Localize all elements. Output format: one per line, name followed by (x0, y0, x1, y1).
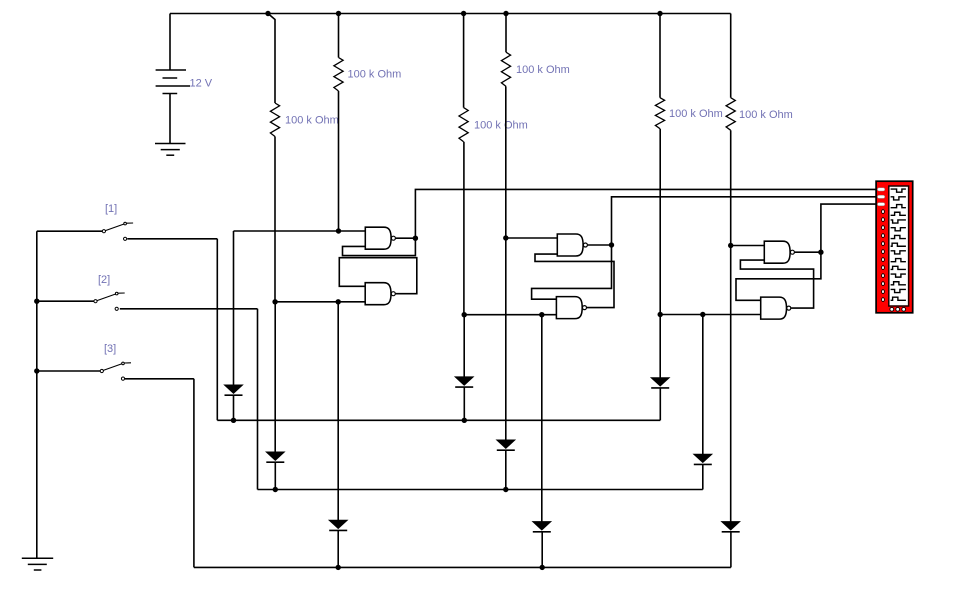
svg-text:100 k Ohm: 100 k Ohm (474, 119, 528, 131)
wire: switch 2 to bus corner (120, 308, 258, 310)
wire: battery negative lead (169, 94, 171, 144)
node: R4 on NAND C input (503, 235, 508, 240)
wire: NAND E output (795, 251, 821, 253)
wire: switch-1 horizontal bus (217, 419, 660, 421)
diode D6 (533, 522, 551, 530)
wire: left ground bus (36, 231, 38, 558)
wire: R1 bottom to NAND B input node (274, 137, 276, 302)
wire: R3 bottom to NAND D input node (463, 142, 465, 315)
wire: R6 bottom to NAND E top input node (730, 130, 732, 245)
wire: E output up to display (821, 204, 876, 252)
wire: NAND A output (396, 237, 416, 239)
wire: bus to switch 2 (37, 300, 94, 302)
wire: bus to switch 1 (37, 230, 103, 232)
node: rail junction to R3 (461, 11, 466, 16)
node: D6 cathode on switch-3 bus (540, 565, 545, 570)
diode D4 (455, 377, 473, 385)
NAND gate U1A (365, 227, 391, 249)
node: D4 cathode on switch-1 bus (462, 418, 467, 423)
node: rail junction to R5 (657, 11, 662, 16)
switch S3 (100, 369, 103, 372)
NAND gate U2D (556, 297, 582, 319)
wire: node B-low down to diode D2 (274, 302, 276, 452)
resistor R3 100 kOhm (459, 108, 468, 142)
wire: A-input column down to diode D1 (233, 231, 235, 385)
node: D8 column on NAND F input (700, 312, 705, 317)
wire: switch-2 bus vertical (257, 309, 259, 490)
node: NAND A output junction (413, 236, 418, 241)
wire: D3 cathode to switch-3 bus (337, 530, 339, 567)
NAND gate U2C (557, 234, 583, 256)
node: D6 column on NAND D input (539, 312, 544, 317)
diode D7 (651, 378, 669, 386)
wire: D4 cathode to switch-1 bus (463, 387, 465, 420)
wire: NAND E top input (731, 245, 765, 247)
node: NAND C output junction (609, 242, 614, 247)
wire: NAND C output (588, 244, 612, 246)
wire: switch 3 to bus corner (125, 378, 194, 380)
wire: A output feedback to A lower input (343, 238, 416, 255)
wire: node D-low down to diode D6 (541, 315, 543, 522)
ground (switch bus) (22, 557, 53, 559)
wire: rail to R4 (505, 14, 507, 53)
svg-text:12 V: 12 V (190, 78, 213, 90)
wire: NAND C top input (506, 237, 558, 239)
node: R1 on NAND B input (272, 299, 277, 304)
wire: D1 cathode to switch-1 bus (233, 395, 235, 420)
wire: R5 bottom to NAND F input node (659, 129, 661, 315)
svg-text:[3]: [3] (104, 343, 116, 355)
wire: node F-low down to diode D8 (702, 315, 704, 455)
wire: bus to switch 3 (37, 370, 101, 372)
node: R6 on NAND E input (728, 243, 733, 248)
wire: switch 1 to set-bus corner (127, 238, 217, 240)
svg-text:100 k Ohm: 100 k Ohm (516, 64, 570, 76)
diode D1 (225, 385, 243, 393)
wire: NAND A top input (234, 230, 366, 232)
wire: switch-3 bus vertical (193, 379, 195, 568)
wire: D9 cathode to switch-3 bus corner (730, 532, 732, 568)
node: R2 on NAND A input (336, 228, 341, 233)
wire: A output up to display (415, 189, 876, 238)
wire: B output feedback to B upper input (339, 258, 417, 294)
node: D3 column on NAND B input (336, 299, 341, 304)
wire: D6 cathode to switch-3 bus (541, 532, 543, 568)
svg-text:100 k Ohm: 100 k Ohm (348, 68, 402, 80)
node: D3 cathode on switch-3 bus (336, 565, 341, 570)
wire: NAND F lower input (660, 314, 761, 316)
node: rail junction to R4 (503, 11, 508, 16)
wire: switch-1 bus vertical (216, 239, 218, 420)
resistor R5 100 kOhm (655, 98, 664, 129)
node: NAND E output junction (818, 250, 823, 255)
switch S1 (102, 230, 105, 233)
wire: F output cross-couple to E lower input (740, 260, 813, 308)
diode D3 (329, 520, 347, 528)
wire: switch-3 horizontal bus (194, 566, 731, 568)
wire: rail jog down to R1 (268, 14, 275, 104)
wire: E output cross-couple to F upper input (736, 252, 821, 300)
NAND gate U3E (764, 241, 790, 263)
wire: node B-low down to diode D3 (337, 302, 339, 520)
wire: D7 cathode to switch-1 bus corner (659, 388, 661, 420)
wire: D5 cathode to switch-2 bus (505, 450, 507, 489)
ground (battery) (155, 143, 186, 145)
wire: NAND B lower input (275, 301, 365, 303)
wire: rail to R5 (659, 14, 661, 98)
NAND gate U3F (761, 297, 787, 319)
wire: rail to R2 (338, 14, 340, 58)
wire: +12V top power rail (170, 13, 731, 15)
wire: rail to R3 (463, 14, 465, 108)
diode D9 (722, 522, 740, 530)
diode D2 (266, 452, 284, 460)
svg-text:100 k Ohm: 100 k Ohm (669, 108, 723, 120)
diode D5 (497, 440, 515, 448)
node: rail junction to R2 (336, 11, 341, 16)
node: D2 cathode on switch-2 bus (273, 487, 278, 492)
resistor R6 100 kOhm (726, 98, 735, 131)
wire: node F-low down to diode D7 (659, 315, 661, 378)
wire: node D-low down to diode D4 (463, 315, 465, 377)
wire: R4 bottom to NAND C top input node (505, 86, 507, 238)
wire: D output cross-couple to C lower input (535, 254, 614, 308)
wire: C output cross-couple to D upper input (532, 245, 612, 299)
wire: NAND D lower input (464, 314, 556, 316)
wire: rail corner down to R6 (730, 14, 732, 98)
wire: C output up to display (612, 197, 877, 245)
wire: D8 cathode to switch-2 bus corner (702, 464, 704, 489)
node: bus junction switch 3 (34, 368, 39, 373)
svg-text:[1]: [1] (105, 203, 117, 215)
node: bus junction switch 2 (34, 299, 39, 304)
battery V1 12 V (156, 69, 186, 71)
node: R5 on NAND F input (658, 312, 663, 317)
wire: battery positive lead (169, 14, 171, 71)
switch S2 (94, 300, 97, 303)
wire: node E-top down to diode D9 (730, 246, 732, 522)
svg-text:[2]: [2] (98, 274, 110, 286)
resistor R2 100 kOhm (334, 58, 343, 92)
diode D8 (694, 454, 712, 462)
resistor R4 100 kOhm (501, 52, 510, 86)
resistor R1 100 kOhm (270, 103, 279, 137)
node: rail junction to R1 (265, 11, 270, 16)
node: D5 cathode on switch-2 bus (503, 487, 508, 492)
node: D1 cathode on switch-1 bus (231, 418, 236, 423)
wire: node C-top down to diode D5 (505, 238, 507, 440)
NAND gate U1B (365, 283, 391, 305)
wire: switch-2 horizontal bus (258, 489, 703, 491)
svg-text:100 k Ohm: 100 k Ohm (739, 109, 793, 121)
wire: R2 bottom to NAND A top input node (338, 91, 340, 231)
node: R3 on NAND D input (462, 312, 467, 317)
wire: D2 cathode to switch-2 bus (274, 462, 276, 489)
logic analyzer display X1 (876, 181, 913, 313)
svg-text:100 k Ohm: 100 k Ohm (285, 115, 339, 127)
